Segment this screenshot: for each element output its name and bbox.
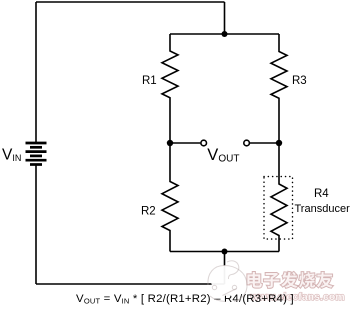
resistor R2 (162, 143, 178, 252)
svg-text:Transducer: Transducer (295, 203, 350, 215)
battery V_IN (26, 143, 47, 165)
watermark mascot outline (208, 261, 247, 302)
resistor R3 (271, 34, 287, 143)
svg-text:R2: R2 (141, 206, 156, 218)
wire bridge bottom horizontal (170, 251, 279, 253)
svg-text:R1: R1 (142, 75, 157, 87)
svg-text:VOUT = VIN * [ R2/(R1+R2) – R4: VOUT = VIN * [ R2/(R1+R2) – R4/(R3+R4) ] (76, 293, 294, 306)
wire bridge top horizontal (170, 33, 279, 35)
transducer dotted box (264, 177, 293, 240)
wire left vertical x=36 lower (35, 166, 37, 285)
node left bridge junction dot (167, 140, 173, 146)
wire bottom horizontal return (36, 283, 225, 285)
resistor R1 (162, 34, 178, 143)
wire V_OUT right stub (250, 142, 279, 144)
wire left vertical x=36 upper (35, 2, 37, 142)
wire center vertical drop to top node (224, 2, 226, 34)
watermark text 电子发烧友 (247, 272, 332, 288)
node bottom junction dot (222, 249, 228, 255)
resistor R4 (271, 143, 287, 252)
terminal V_OUT left open circle (201, 140, 207, 146)
wire V_OUT left stub (170, 142, 200, 144)
node top junction dot (222, 31, 228, 37)
terminal V_OUT right open circle (244, 140, 250, 146)
wire top horizontal from battery top to center drop (36, 1, 225, 3)
svg-text:R4: R4 (314, 188, 329, 200)
node right bridge junction dot (276, 140, 282, 146)
svg-text:R3: R3 (292, 75, 307, 87)
wire bottom vertical drop (224, 252, 226, 285)
